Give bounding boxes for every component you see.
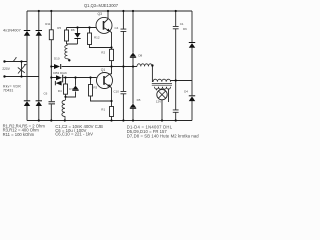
wire mid rail [51, 66, 137, 68]
diode D10 [54, 64, 61, 69]
transformer TR primary [153, 79, 171, 82]
transformer TR secondary [155, 87, 171, 89]
wire mains line 2 [5, 76, 39, 78]
resistor R11 [50, 11, 52, 101]
resistor R4 [65, 78, 67, 98]
svg-text:R2: R2 [101, 51, 105, 55]
capacitor C4 [121, 11, 127, 67]
diode D4b [36, 100, 42, 106]
transistor Q3 [96, 17, 112, 33]
svg-text:12V: 12V [156, 100, 161, 104]
inductor feedback winding W1 [66, 44, 68, 45]
wire secondary right stub [168, 89, 170, 103]
svg-text:R11 = 100 kOhm: R11 = 100 kOhm [3, 132, 35, 137]
switch tick [13, 58, 15, 61]
lamp 12V [157, 89, 167, 99]
svg-text:4x1N4007: 4x1N4007 [3, 27, 21, 32]
varistor Rv [21, 62, 23, 77]
svg-text:R12: R12 [94, 35, 100, 39]
svg-text:Q3: Q3 [98, 12, 103, 16]
svg-text:C6,C10 = 221 - 1kV: C6,C10 = 221 - 1kV [55, 132, 93, 137]
wire Q1 emitter [110, 87, 111, 107]
diac DB3 [55, 75, 63, 86]
svg-text:D4: D4 [184, 89, 188, 93]
svg-text:D7: D7 [69, 87, 73, 91]
inductor feedback winding W2 [65, 97, 67, 100]
svg-text:C4: C4 [115, 26, 119, 30]
svg-text:C1: C1 [180, 22, 184, 26]
svg-text:C10: C10 [113, 90, 119, 94]
svg-text:D6: D6 [183, 27, 187, 31]
inductor choke L1 [137, 64, 152, 67]
resistor R2 [110, 49, 114, 60]
svg-text:R1: R1 [101, 108, 105, 112]
diode D6 [67, 28, 78, 45]
svg-text:D7,D8 = SB 140 Hute M2 krotka: D7,D8 = SB 140 Hute M2 krotka nad [127, 133, 200, 138]
svg-text:7D431: 7D431 [3, 89, 13, 93]
transformer TR core [152, 84, 172, 86]
svg-text:DB3 DIAK: DB3 DIAK [53, 71, 67, 75]
svg-text:Q1: Q1 [101, 68, 106, 72]
svg-text:R4: R4 [58, 89, 62, 93]
resistor R5 [66, 28, 68, 45]
capacitor C2 [173, 81, 179, 121]
diode D8 [132, 11, 134, 67]
wire Q3 emitter [110, 31, 112, 49]
wire choke to transformer [152, 66, 153, 82]
resistor R12 [90, 28, 112, 48]
svg-text:R3: R3 [93, 85, 97, 89]
svg-text:Q1,Q3=MJE13007: Q1,Q3=MJE13007 [84, 3, 119, 8]
wire Q1 base rail [51, 77, 96, 79]
wire lamp to bottom bus [161, 100, 163, 121]
capacitor C1 [173, 11, 179, 81]
wire top bus [27, 10, 192, 12]
resistor R1 [110, 107, 114, 117]
svg-text:D6: D6 [71, 28, 75, 32]
svg-text:R5: R5 [57, 26, 61, 30]
svg-text:D10: D10 [54, 57, 60, 61]
svg-text:C6: C6 [44, 92, 48, 96]
transistor Q1 [97, 73, 113, 89]
svg-text:R11: R11 [45, 22, 51, 26]
svg-text:220V: 220V [2, 67, 10, 71]
diode D1 [24, 30, 30, 36]
diode D9 [189, 42, 195, 48]
diode D4 [189, 95, 195, 101]
wire bottom bus [27, 120, 192, 122]
svg-text:D5: D5 [137, 98, 141, 102]
diode D3 [36, 30, 42, 36]
wire secondary left to lamp [156, 89, 158, 91]
capacitor C6 [49, 102, 56, 104]
wire mains line 1 [5, 61, 28, 63]
svg-text:D8: D8 [138, 53, 142, 57]
wire left bridge column [26, 11, 28, 121]
wire right edge [191, 11, 193, 121]
wire Q3 base rail [67, 27, 97, 29]
capacitor C10 [121, 67, 127, 121]
resistor R3 [91, 78, 112, 102]
diode D5 [132, 67, 134, 121]
wire primary right to right rail [171, 81, 192, 82]
wire second bridge column [38, 11, 40, 121]
diode D7 [66, 78, 76, 98]
diode D2 [24, 100, 30, 106]
